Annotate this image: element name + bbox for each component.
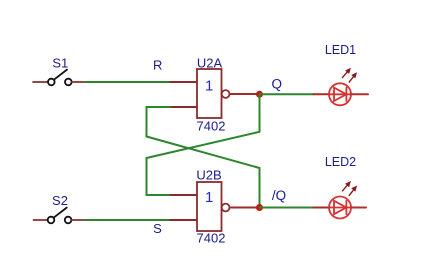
svg-text:S2: S2 — [52, 193, 68, 208]
LED LED2 — [329, 182, 357, 219]
switch S1 — [33, 70, 86, 86]
pin stub U2A pin B — [170, 106, 197, 108]
pin stub U2B pin B — [170, 219, 197, 221]
wire LED1 anode lead — [351, 93, 368, 95]
wire U2A output to junction — [230, 93, 260, 95]
pin stub U2A pin A — [170, 81, 197, 83]
LED2 light arrows — [342, 182, 356, 196]
wire R (S1 to U2A input A) — [86, 81, 171, 83]
svg-text:1: 1 — [205, 78, 213, 95]
wire LED1 cathode lead — [314, 93, 330, 95]
wire /Q feedback into U2A input B — [147, 106, 171, 108]
svg-text:7402: 7402 — [197, 231, 226, 246]
output bubble U2B — [222, 204, 230, 212]
wire Q feedback: left vertical down — [146, 158, 148, 195]
svg-text:R: R — [153, 58, 162, 73]
wire U2B output to junction — [230, 207, 260, 209]
junction node /Q — [256, 204, 263, 211]
svg-text:U2A: U2A — [197, 56, 223, 71]
wire Q feedback: junction down — [259, 94, 261, 132]
svg-text:Q: Q — [272, 77, 283, 92]
junction node Q — [256, 91, 263, 98]
wire S (S2 to U2B input B) — [85, 219, 171, 221]
wire LED2 cathode lead — [314, 207, 330, 209]
wire /Q feedback: left vertical up — [146, 107, 148, 137]
NOR gate U2B — [197, 182, 230, 231]
output bubble U2A — [222, 90, 230, 98]
wire LED2 anode lead — [351, 207, 366, 209]
NOR gate U2A — [170, 69, 230, 118]
switch S2 — [34, 208, 85, 224]
wire Q to LED1 — [260, 93, 314, 95]
svg-text:LED1: LED1 — [325, 43, 356, 57]
svg-text:7402: 7402 — [197, 119, 226, 134]
pin stub U2B pin A — [170, 194, 197, 196]
wire /Q to LED2 — [260, 207, 314, 209]
svg-text:S1: S1 — [52, 56, 68, 71]
LED1 light arrows — [342, 69, 356, 83]
LED LED1 — [329, 69, 357, 106]
svg-text:S: S — [153, 221, 162, 236]
svg-text:1: 1 — [205, 189, 213, 206]
wire Q feedback: diagonal to left — [147, 132, 260, 158]
svg-text:U2B: U2B — [196, 168, 221, 183]
wire /Q feedback: junction up — [259, 168, 261, 208]
wire /Q feedback: diagonal to left — [147, 137, 260, 169]
svg-text:/Q: /Q — [272, 188, 286, 203]
svg-text:LED2: LED2 — [325, 155, 356, 169]
wire Q feedback into U2B input A — [147, 194, 171, 196]
